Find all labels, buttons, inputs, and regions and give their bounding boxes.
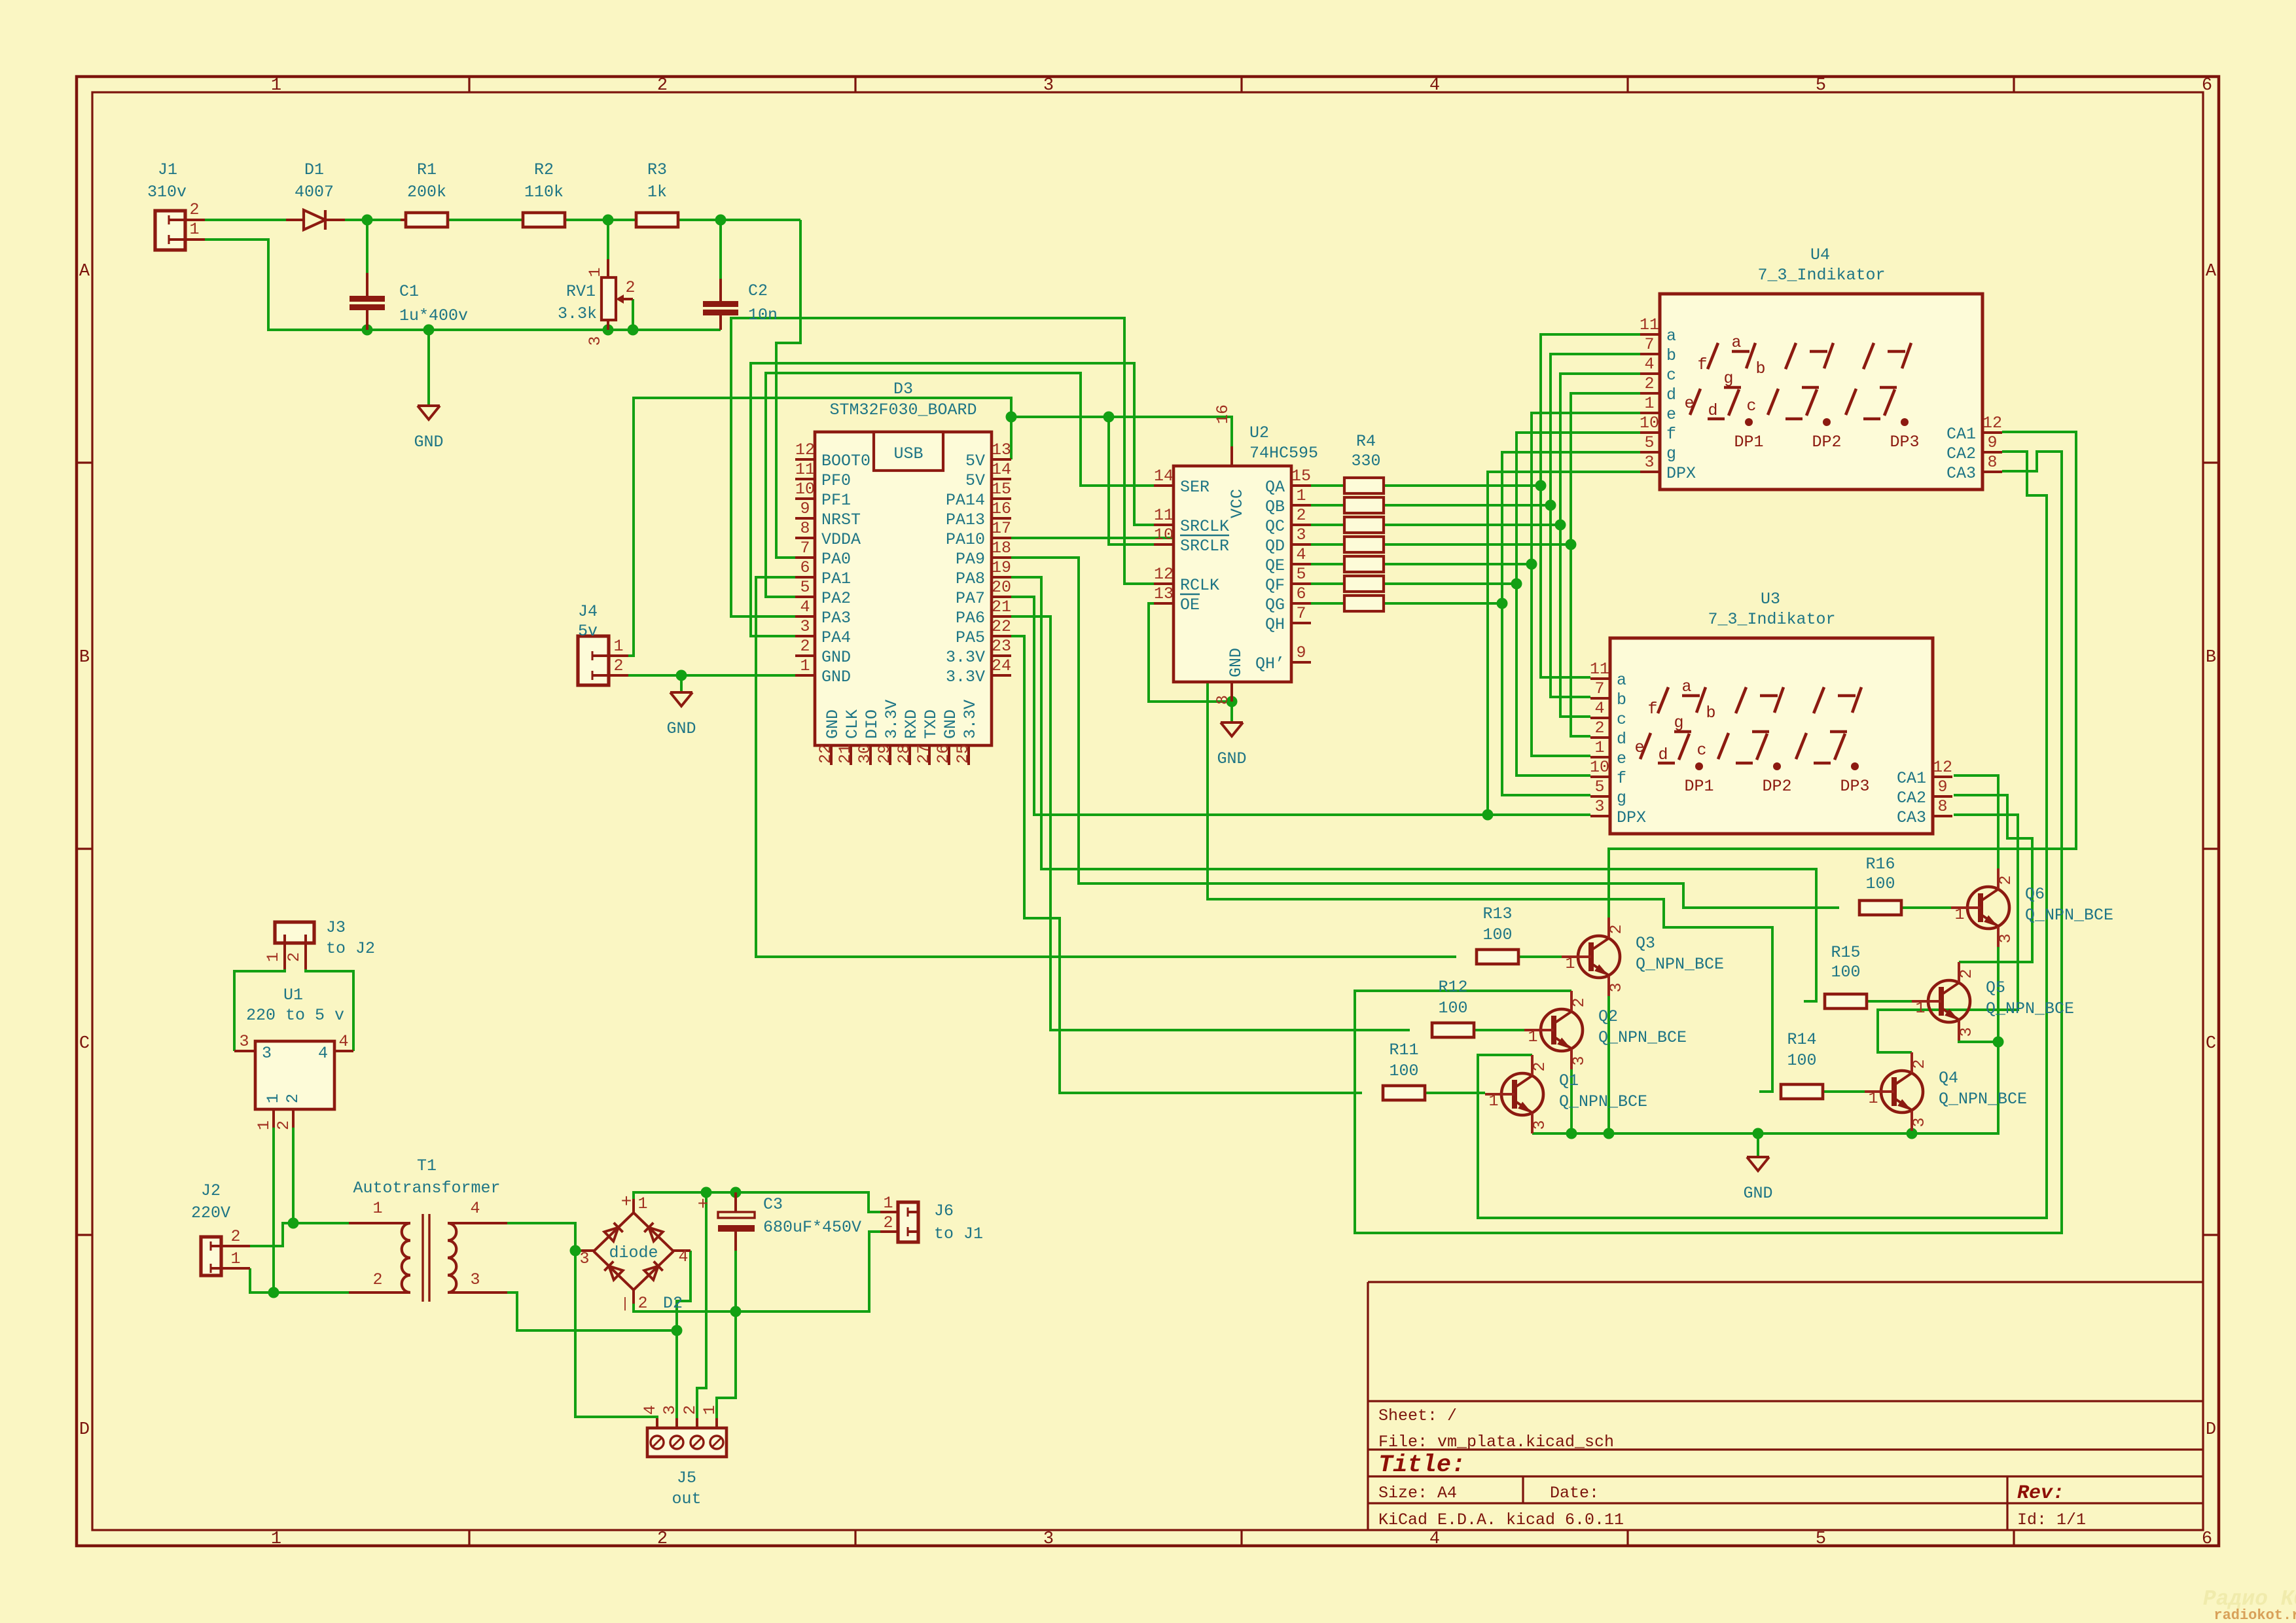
svg-text:6: 6	[800, 558, 810, 577]
svg-text:2: 2	[613, 656, 623, 675]
svg-text:5v: 5v	[578, 622, 598, 641]
svg-text:PA14: PA14	[946, 491, 985, 510]
svg-text:diode: diode	[609, 1243, 658, 1262]
svg-text:2: 2	[283, 1094, 302, 1103]
svg-text:e: e	[1617, 749, 1626, 768]
svg-text:2: 2	[800, 637, 810, 656]
svg-text:7: 7	[1594, 679, 1604, 698]
svg-text:U1: U1	[283, 986, 303, 1005]
svg-text:4: 4	[641, 1405, 660, 1415]
svg-text:2: 2	[1910, 1059, 1929, 1069]
svg-text:14: 14	[1154, 467, 1174, 486]
svg-text:Date:: Date:	[1550, 1484, 1599, 1503]
svg-text:7_3_Indikator: 7_3_Indikator	[1757, 266, 1885, 285]
svg-text:5: 5	[1644, 433, 1654, 452]
svg-text:c: c	[1617, 710, 1626, 729]
svg-text:d: d	[1658, 745, 1668, 764]
svg-text:U4: U4	[1810, 245, 1830, 264]
svg-text:15: 15	[1291, 467, 1311, 486]
svg-text:10: 10	[1154, 526, 1174, 544]
svg-text:1: 1	[1296, 486, 1306, 505]
svg-text:R12: R12	[1438, 978, 1467, 997]
svg-text:PF1: PF1	[821, 491, 851, 510]
svg-text:B: B	[2206, 648, 2216, 668]
svg-text:1: 1	[800, 656, 810, 675]
svg-text:to J2: to J2	[326, 939, 375, 958]
svg-text:220 to 5 v: 220 to 5 v	[246, 1006, 344, 1025]
svg-text:3.3V: 3.3V	[946, 648, 985, 667]
svg-text:16: 16	[992, 499, 1011, 518]
svg-text:b: b	[1755, 359, 1765, 378]
svg-text:22: 22	[992, 617, 1011, 636]
svg-text:12: 12	[1933, 758, 1952, 777]
svg-text:Q6: Q6	[2025, 885, 2045, 904]
svg-text:f: f	[1697, 355, 1707, 374]
svg-text:16: 16	[1213, 404, 1232, 424]
svg-text:3: 3	[1570, 1056, 1588, 1065]
svg-text:100: 100	[1787, 1051, 1816, 1070]
svg-text:2: 2	[1570, 997, 1588, 1007]
svg-text:R11: R11	[1389, 1041, 1418, 1060]
svg-text:C: C	[2206, 1034, 2216, 1054]
svg-text:1: 1	[1594, 738, 1604, 757]
svg-text:3: 3	[1043, 76, 1054, 96]
svg-text:C2: C2	[748, 281, 768, 300]
svg-text:5: 5	[800, 578, 810, 597]
svg-text:BOOT0: BOOT0	[821, 452, 870, 471]
svg-text:3: 3	[1043, 1529, 1054, 1549]
svg-text:PA0: PA0	[821, 550, 851, 569]
svg-text:19: 19	[992, 558, 1011, 577]
svg-text:1u*400v: 1u*400v	[399, 306, 468, 325]
svg-text:QD: QD	[1265, 537, 1285, 556]
svg-text:PA1: PA1	[821, 569, 851, 588]
svg-text:f: f	[1666, 425, 1676, 444]
svg-text:D2: D2	[663, 1294, 683, 1313]
svg-text:radiokot.ru: radiokot.ru	[2214, 1607, 2296, 1623]
svg-text:QA: QA	[1265, 478, 1285, 497]
svg-text:R2: R2	[534, 160, 554, 179]
svg-text:R16: R16	[1865, 855, 1895, 874]
svg-text:9: 9	[800, 499, 810, 518]
svg-text:1: 1	[189, 220, 199, 239]
svg-text:2: 2	[230, 1227, 240, 1246]
svg-text:6: 6	[2202, 1529, 2212, 1549]
svg-text:2: 2	[274, 1120, 293, 1130]
svg-text:3: 3	[586, 336, 605, 346]
svg-text:1: 1	[1954, 905, 1964, 924]
svg-text:10: 10	[1590, 758, 1609, 777]
svg-text:74HC595: 74HC595	[1249, 444, 1318, 463]
svg-text:CA3: CA3	[1897, 808, 1926, 827]
svg-text:8: 8	[1937, 797, 1947, 816]
svg-text:Q_NPN_BCE: Q_NPN_BCE	[1986, 999, 2074, 1018]
svg-text:200k: 200k	[407, 183, 446, 202]
svg-text:J6: J6	[934, 1202, 954, 1221]
svg-text:a: a	[1731, 333, 1741, 352]
svg-text:100: 100	[1438, 999, 1467, 1018]
svg-text:OE: OE	[1180, 596, 1200, 615]
svg-text:d: d	[1708, 401, 1717, 420]
svg-text:3: 3	[1296, 526, 1306, 544]
svg-text:3: 3	[660, 1405, 679, 1415]
svg-text:+: +	[621, 1192, 632, 1213]
svg-text:a: a	[1617, 671, 1626, 690]
svg-text:DP2: DP2	[1762, 777, 1791, 796]
svg-text:a: a	[1666, 327, 1676, 346]
svg-text:D: D	[2206, 1420, 2216, 1440]
svg-text:PF0: PF0	[821, 471, 851, 490]
svg-text:GND: GND	[821, 648, 851, 667]
svg-text:1: 1	[700, 1405, 719, 1415]
svg-text:QH’: QH’	[1255, 654, 1285, 673]
svg-text:A: A	[79, 262, 90, 281]
svg-text:RCLK: RCLK	[1180, 576, 1219, 595]
svg-text:Q_NPN_BCE: Q_NPN_BCE	[1559, 1092, 1647, 1111]
svg-text:CA1: CA1	[1946, 425, 1976, 444]
svg-text:GND: GND	[1743, 1184, 1772, 1203]
svg-text:23: 23	[992, 637, 1011, 656]
svg-text:|: |	[620, 1296, 629, 1312]
svg-text:9: 9	[1937, 777, 1947, 796]
svg-text:20: 20	[992, 578, 1011, 597]
svg-text:3: 3	[1594, 797, 1604, 816]
svg-text:DP2: DP2	[1812, 433, 1841, 452]
svg-text:Autotransformer: Autotransformer	[353, 1179, 500, 1198]
svg-text:R1: R1	[417, 160, 437, 179]
svg-text:3: 3	[262, 1044, 272, 1063]
svg-text:PA13: PA13	[946, 510, 985, 529]
svg-text:22: 22	[816, 744, 835, 764]
svg-text:4: 4	[1594, 699, 1604, 718]
svg-text:330: 330	[1351, 452, 1380, 471]
svg-text:R3: R3	[647, 160, 667, 179]
svg-text:4: 4	[678, 1247, 688, 1266]
svg-text:2: 2	[637, 1294, 647, 1313]
svg-text:T1: T1	[417, 1156, 437, 1175]
svg-text:GND: GND	[1227, 648, 1246, 677]
svg-text:8: 8	[1987, 453, 1997, 472]
svg-text:R4: R4	[1356, 432, 1376, 451]
svg-text:18: 18	[992, 539, 1011, 558]
svg-text:Sheet: /: Sheet: /	[1378, 1406, 1457, 1425]
svg-text:1: 1	[1488, 1092, 1498, 1111]
svg-text:PA9: PA9	[956, 550, 985, 569]
svg-text:PA2: PA2	[821, 589, 851, 608]
svg-text:1: 1	[883, 1194, 893, 1213]
svg-text:PA6: PA6	[956, 609, 985, 628]
svg-text:3: 3	[1530, 1120, 1549, 1130]
svg-text:4007: 4007	[295, 183, 334, 202]
svg-text:2: 2	[1957, 969, 1976, 978]
svg-text:CA2: CA2	[1946, 444, 1976, 463]
svg-text:1: 1	[637, 1194, 647, 1213]
svg-text:2: 2	[1607, 924, 1626, 934]
svg-text:PA10: PA10	[946, 530, 985, 549]
svg-text:QC: QC	[1265, 517, 1285, 536]
svg-text:11: 11	[1640, 315, 1659, 334]
svg-text:DP1: DP1	[1684, 777, 1713, 796]
svg-text:2: 2	[285, 952, 304, 962]
svg-text:3: 3	[579, 1249, 589, 1268]
svg-text:2: 2	[625, 278, 635, 297]
svg-text:27: 27	[914, 744, 933, 764]
svg-text:1: 1	[1644, 394, 1654, 413]
svg-text:4: 4	[1644, 355, 1654, 374]
svg-text:PA7: PA7	[956, 589, 985, 608]
svg-text:14: 14	[992, 460, 1011, 479]
svg-text:10: 10	[1640, 414, 1659, 433]
svg-text:c: c	[1666, 366, 1676, 385]
svg-text:10n: 10n	[748, 306, 778, 325]
svg-text:2: 2	[1644, 374, 1654, 393]
svg-text:5V: 5V	[965, 452, 985, 471]
svg-text:3: 3	[239, 1032, 249, 1051]
svg-text:Q_NPN_BCE: Q_NPN_BCE	[1636, 955, 1724, 974]
svg-text:e: e	[1684, 394, 1694, 413]
svg-text:QF: QF	[1265, 576, 1285, 595]
svg-text:7_3_Indikator: 7_3_Indikator	[1708, 610, 1835, 629]
svg-text:VDDA: VDDA	[821, 530, 861, 549]
svg-text:2: 2	[657, 76, 668, 96]
svg-text:Title:: Title:	[1378, 1452, 1465, 1479]
svg-text:PA8: PA8	[956, 569, 985, 588]
svg-text:1: 1	[372, 1199, 382, 1218]
svg-text:3: 3	[800, 617, 810, 636]
svg-text:11: 11	[1590, 660, 1609, 679]
svg-text:3: 3	[1957, 1027, 1976, 1037]
svg-text:6: 6	[1296, 584, 1306, 603]
svg-text:3: 3	[1996, 933, 2015, 943]
svg-text:1: 1	[1565, 954, 1575, 973]
svg-text:7: 7	[1644, 335, 1654, 354]
svg-text:Size: A4: Size: A4	[1378, 1484, 1457, 1503]
svg-text:3.3V: 3.3V	[961, 700, 980, 739]
svg-text:J4: J4	[578, 602, 598, 621]
svg-text:A: A	[2206, 262, 2217, 281]
svg-text:29: 29	[875, 744, 894, 764]
svg-text:4: 4	[1429, 1529, 1440, 1549]
svg-text:Q1: Q1	[1559, 1071, 1579, 1090]
svg-text:QH: QH	[1265, 615, 1285, 634]
svg-text:b: b	[1666, 346, 1676, 365]
svg-text:3.3V: 3.3V	[946, 668, 985, 687]
svg-text:J2: J2	[201, 1181, 221, 1200]
svg-text:J3: J3	[326, 918, 346, 937]
svg-text:2: 2	[189, 200, 199, 219]
svg-text:Q_NPN_BCE: Q_NPN_BCE	[1939, 1090, 2027, 1109]
svg-text:PA3: PA3	[821, 609, 851, 628]
svg-text:7: 7	[1296, 604, 1306, 623]
svg-text:Q2: Q2	[1598, 1007, 1618, 1026]
svg-text:g: g	[1617, 789, 1626, 808]
svg-text:to J1: to J1	[934, 1224, 983, 1243]
svg-text:1: 1	[271, 1529, 281, 1549]
svg-text:12: 12	[1982, 414, 2002, 433]
svg-text:R15: R15	[1831, 943, 1860, 962]
svg-text:DP3: DP3	[1890, 433, 1919, 452]
svg-text:220V: 220V	[191, 1204, 230, 1222]
svg-text:4: 4	[1429, 76, 1440, 96]
svg-text:8: 8	[1213, 695, 1232, 705]
svg-text:f: f	[1647, 700, 1657, 719]
svg-text:21: 21	[992, 597, 1011, 616]
svg-text:30: 30	[855, 744, 874, 764]
svg-text:b: b	[1617, 690, 1626, 709]
svg-text:310v: 310v	[147, 183, 187, 202]
svg-text:b: b	[1706, 704, 1715, 722]
svg-text:GND: GND	[1217, 749, 1246, 768]
svg-text:C: C	[79, 1034, 90, 1054]
svg-text:KiCad E.D.A. kicad 6.0.11: KiCad E.D.A. kicad 6.0.11	[1378, 1510, 1624, 1529]
svg-text:R13: R13	[1482, 904, 1512, 923]
svg-text:5: 5	[1816, 1529, 1826, 1549]
svg-text:100: 100	[1865, 874, 1895, 893]
svg-text:g: g	[1723, 369, 1733, 388]
svg-text:10: 10	[795, 480, 815, 499]
svg-text:26: 26	[934, 744, 953, 764]
svg-text:out: out	[672, 1489, 701, 1508]
svg-text:25: 25	[954, 744, 973, 764]
svg-text:SRCLR: SRCLR	[1180, 537, 1229, 556]
svg-text:110k: 110k	[524, 183, 564, 202]
svg-text:5: 5	[1816, 76, 1826, 96]
svg-text:4: 4	[338, 1032, 348, 1051]
svg-text:Q_NPN_BCE: Q_NPN_BCE	[2025, 906, 2113, 925]
svg-text:2: 2	[883, 1213, 893, 1232]
svg-text:U3: U3	[1761, 590, 1780, 609]
svg-text:USB: USB	[893, 444, 923, 463]
svg-text:9: 9	[1987, 433, 1997, 452]
svg-text:28: 28	[895, 744, 914, 764]
svg-text:100: 100	[1389, 1061, 1418, 1080]
svg-text:NRST: NRST	[821, 510, 861, 529]
svg-text:+: +	[698, 1195, 709, 1215]
svg-text:9: 9	[1296, 643, 1306, 662]
svg-text:Rev:: Rev:	[2017, 1482, 2064, 1505]
svg-text:C1: C1	[399, 282, 419, 301]
svg-text:1: 1	[271, 76, 281, 96]
svg-text:13: 13	[992, 440, 1011, 459]
svg-text:PA4: PA4	[821, 628, 851, 647]
svg-text:C3: C3	[763, 1195, 783, 1214]
svg-text:PA5: PA5	[956, 628, 985, 647]
svg-text:11: 11	[795, 460, 815, 479]
svg-text:c: c	[1696, 741, 1706, 760]
svg-text:1: 1	[613, 637, 623, 656]
svg-text:GND: GND	[941, 709, 960, 739]
svg-text:R14: R14	[1787, 1030, 1816, 1049]
svg-text:J1: J1	[158, 160, 177, 179]
svg-text:VCC: VCC	[1228, 489, 1247, 518]
svg-text:100: 100	[1482, 925, 1512, 944]
svg-text:DP1: DP1	[1734, 433, 1763, 452]
svg-text:Q5: Q5	[1986, 978, 2005, 997]
svg-text:DIO: DIO	[863, 709, 882, 739]
svg-text:17: 17	[992, 519, 1011, 538]
svg-text:2: 2	[1296, 506, 1306, 525]
svg-text:d: d	[1617, 730, 1626, 749]
svg-text:Q_NPN_BCE: Q_NPN_BCE	[1598, 1028, 1687, 1047]
svg-text:1: 1	[230, 1249, 240, 1268]
svg-text:Q3: Q3	[1636, 934, 1655, 953]
svg-text:f: f	[1617, 769, 1626, 788]
svg-text:g: g	[1674, 713, 1683, 732]
svg-text:1: 1	[264, 952, 283, 962]
svg-text:J5: J5	[677, 1469, 696, 1488]
svg-text:SER: SER	[1180, 478, 1210, 497]
svg-text:3.3V: 3.3V	[882, 700, 901, 739]
svg-text:D3: D3	[893, 380, 913, 399]
svg-text:11: 11	[1154, 506, 1174, 525]
svg-text:1: 1	[1528, 1027, 1537, 1046]
svg-text:21: 21	[836, 744, 855, 764]
svg-text:1: 1	[264, 1094, 283, 1103]
svg-text:2: 2	[1996, 875, 2015, 885]
svg-text:5: 5	[1296, 565, 1306, 584]
svg-text:CLK: CLK	[843, 709, 862, 739]
svg-text:1k: 1k	[647, 183, 667, 202]
svg-text:4: 4	[800, 597, 810, 616]
svg-text:2: 2	[657, 1529, 668, 1549]
svg-text:GND: GND	[821, 668, 851, 687]
svg-text:RXD: RXD	[902, 709, 921, 739]
svg-text:B: B	[79, 648, 90, 668]
svg-text:5V: 5V	[965, 471, 985, 490]
svg-text:File: vm_plata.kicad_sch: File: vm_plata.kicad_sch	[1378, 1433, 1614, 1452]
svg-text:D1: D1	[304, 160, 324, 179]
svg-text:12: 12	[1154, 565, 1174, 584]
svg-text:24: 24	[992, 656, 1011, 675]
svg-text:8: 8	[800, 519, 810, 538]
svg-text:e: e	[1634, 738, 1644, 757]
svg-text:100: 100	[1831, 963, 1860, 982]
svg-text:Id: 1/1: Id: 1/1	[2017, 1510, 2086, 1529]
svg-text:g: g	[1666, 444, 1676, 463]
svg-text:CA1: CA1	[1897, 769, 1926, 788]
svg-text:7: 7	[800, 539, 810, 558]
svg-text:e: e	[1666, 405, 1676, 424]
svg-text:3: 3	[470, 1270, 480, 1289]
svg-text:DP3: DP3	[1840, 777, 1869, 796]
svg-text:4: 4	[318, 1044, 328, 1063]
svg-text:QB: QB	[1265, 497, 1285, 516]
svg-text:QG: QG	[1265, 596, 1285, 615]
svg-text:15: 15	[992, 480, 1011, 499]
svg-text:GND: GND	[414, 433, 443, 452]
svg-text:c: c	[1746, 397, 1756, 416]
svg-text:5: 5	[1594, 777, 1604, 796]
svg-text:a: a	[1681, 677, 1691, 696]
svg-text:RV1: RV1	[566, 282, 596, 301]
svg-text:2: 2	[1594, 719, 1604, 738]
svg-text:DPX: DPX	[1617, 808, 1646, 827]
svg-text:TXD: TXD	[922, 709, 941, 739]
svg-text:2: 2	[1530, 1061, 1549, 1071]
svg-text:4: 4	[1296, 545, 1306, 564]
svg-text:2: 2	[372, 1270, 382, 1289]
svg-text:13: 13	[1154, 584, 1174, 603]
svg-text:d: d	[1666, 385, 1676, 404]
svg-text:STM32F030_BOARD: STM32F030_BOARD	[829, 401, 977, 419]
svg-text:1: 1	[1915, 999, 1925, 1018]
svg-text:680uF*450V: 680uF*450V	[763, 1218, 861, 1237]
svg-text:6: 6	[2202, 76, 2212, 96]
svg-text:U2: U2	[1249, 423, 1269, 442]
svg-text:CA3: CA3	[1946, 464, 1976, 483]
svg-text:CA2: CA2	[1897, 789, 1926, 808]
svg-text:Q4: Q4	[1939, 1069, 1958, 1088]
